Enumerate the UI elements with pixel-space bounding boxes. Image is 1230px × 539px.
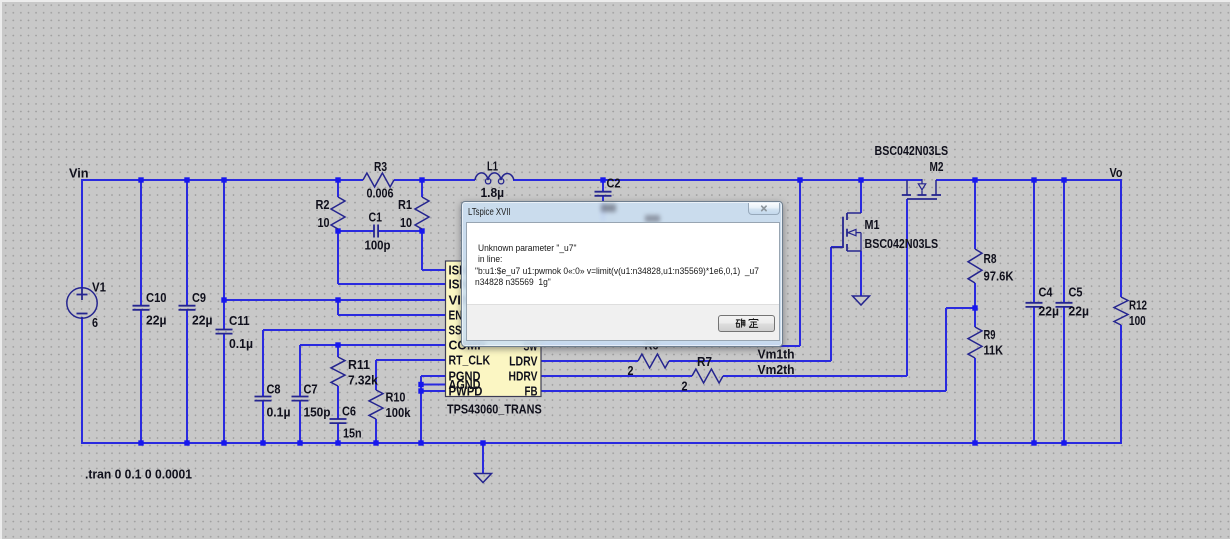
svg-text:Vm2th: Vm2th [758, 362, 795, 377]
svg-text:22µ: 22µ [1039, 303, 1060, 318]
svg-text:97.6K: 97.6K [984, 268, 1015, 283]
svg-text:LDRV: LDRV [509, 353, 538, 368]
capacitor C9 [179, 305, 196, 307]
wire R1 top lead [421, 180, 423, 197]
wire C2 bottom lead (hidden by dialog) [602, 196, 604, 221]
svg-text:BSC042N03LS: BSC042N03LS [875, 143, 949, 158]
ground below M1 [853, 296, 870, 305]
node junction R8/R9 feedback [972, 305, 977, 310]
wire FB row [540, 390, 946, 392]
svg-text:BSC042N03LS: BSC042N03LS [865, 236, 939, 251]
svg-text:R12: R12 [1129, 297, 1147, 312]
wire HDRV row with R7 to M2 gate [540, 375, 692, 377]
wire top rail M2 to Vo [936, 179, 1122, 181]
wire R2 top lead [337, 180, 339, 197]
wire bottom ground rail [81, 442, 1122, 444]
svg-text:C10: C10 [146, 290, 167, 305]
svg-text:V1: V1 [92, 280, 106, 295]
LTspice XVII error dialog [461, 201, 783, 347]
wire COMP row to C7 [300, 344, 446, 346]
svg-text:2: 2 [628, 363, 634, 378]
svg-text:22µ: 22µ [1069, 303, 1090, 318]
node junction VIN/C11 [221, 297, 226, 302]
capacitor C10 [133, 305, 150, 307]
svg-text:0.1µ: 0.1µ [267, 404, 291, 419]
wire C8 bottom [262, 401, 264, 443]
wire R2 bottom lead [337, 229, 339, 232]
svg-text:0.006: 0.006 [367, 186, 394, 201]
resistor R7 [692, 369, 723, 383]
capacitor C11 [216, 329, 233, 331]
svg-text:22µ: 22µ [146, 312, 167, 327]
svg-text:R3: R3 [374, 159, 387, 174]
capacitor C8 [255, 396, 272, 398]
svg-text:C4: C4 [1039, 285, 1054, 300]
svg-text:100k: 100k [386, 405, 412, 420]
wire Vo to R12 [1120, 180, 1122, 297]
ground center bottom [475, 474, 492, 483]
capacitor C6 [330, 418, 347, 420]
wire R10 bottom [375, 419, 377, 443]
node junction COMP/R11 [335, 342, 340, 347]
dialog title [468, 206, 511, 218]
svg-text:7.32k: 7.32k [348, 373, 379, 388]
op-amp U1 block: TPS43060_TRANS IC [446, 261, 542, 397]
wire C4 column [1033, 180, 1035, 303]
node junctions bottom rail [138, 440, 143, 445]
svg-text:R7: R7 [697, 354, 712, 369]
svg-text:C6: C6 [342, 403, 356, 418]
error message text [478, 243, 576, 254]
blurred schematic remnants under glass [601, 204, 616, 212]
svg-text:1.8µ: 1.8µ [481, 185, 505, 200]
resistor R2 [331, 197, 345, 229]
svg-text:10: 10 [318, 215, 330, 230]
wire SS row to C8 [263, 329, 446, 331]
wire PGND AGND PWPD bus [421, 375, 446, 377]
wire Vin top rail left segment [81, 179, 363, 181]
node junction VIN/EN tie [335, 297, 340, 302]
wire C5 column [1063, 180, 1065, 303]
capacitor C2 [595, 191, 612, 193]
wire VIN pin row [224, 299, 446, 301]
capacitor C1 [373, 225, 375, 238]
svg-text:R8: R8 [984, 251, 997, 266]
svg-text:PWPD: PWPD [449, 383, 483, 398]
svg-text:10: 10 [400, 215, 412, 230]
svg-text:100: 100 [1129, 313, 1146, 328]
wire M1 drain lead [860, 180, 862, 213]
svg-text:L1: L1 [487, 159, 498, 174]
wire LDRV row with R6 to M1 gate [540, 360, 638, 362]
svg-text:R1: R1 [398, 197, 412, 212]
wire C6 bottom [337, 423, 339, 443]
wire R8 top lead [974, 180, 976, 249]
wire C1 row [338, 230, 374, 232]
svg-text:R11: R11 [348, 357, 370, 372]
capacitor C4 [1026, 302, 1043, 304]
svg-text:C2: C2 [607, 176, 621, 191]
inductor L1 [475, 173, 514, 180]
resistor R3 [363, 173, 394, 187]
wire R12 bottom lead [1120, 325, 1122, 444]
wire C11/VIN column [223, 180, 225, 330]
resistor R10 [369, 390, 383, 419]
svg-text:C8: C8 [267, 382, 281, 397]
resistor R8 [968, 249, 982, 283]
wire ground stub below rail [482, 443, 484, 473]
wire ISNS+ drop [421, 231, 423, 270]
svg-text:C1: C1 [369, 210, 383, 225]
resistor R9 [968, 327, 982, 358]
svg-text:2: 2 [682, 379, 688, 394]
node junctions AGND PWPD [418, 382, 423, 387]
wire V1 top lead [81, 179, 83, 289]
wire R9 bottom lead [974, 358, 976, 443]
wire C9 column [186, 180, 188, 306]
dialog close button [748, 203, 780, 216]
wire ISNS- drop [337, 231, 339, 284]
svg-text:M2: M2 [930, 159, 944, 174]
svg-text:TPS43060_TRANS: TPS43060_TRANS [447, 401, 542, 416]
svg-text:C5: C5 [1069, 285, 1083, 300]
resistor R12 [1114, 297, 1128, 325]
svg-text:0.1µ: 0.1µ [229, 336, 253, 351]
wire EN tie to VIN [337, 300, 339, 315]
svg-text:6: 6 [92, 315, 98, 330]
wire top rail L1 to M2 [513, 179, 922, 181]
footer strip [467, 304, 779, 340]
wire M1 source to ground [860, 251, 862, 296]
resistor R11 [331, 357, 345, 386]
wire RT_CLK row to R10 [376, 359, 446, 361]
svg-text:R9: R9 [984, 327, 996, 342]
svg-text:M1: M1 [865, 217, 880, 232]
wire R8 to R9 junction [974, 283, 976, 327]
svg-text:R10: R10 [386, 389, 406, 404]
svg-text:.tran 0 0.1 0 0.0001: .tran 0 0.1 0 0.0001 [85, 467, 192, 482]
capacitor C5 [1056, 302, 1073, 304]
transistor M2 [906, 180, 908, 195]
resistor R6 [638, 354, 669, 368]
transistor M1 [846, 213, 848, 220]
svg-text:100p: 100p [365, 238, 391, 253]
node junctions C1 row [335, 228, 340, 233]
svg-text:RT_CLK: RT_CLK [449, 352, 491, 367]
wire V1 bottom lead [81, 317, 83, 444]
svg-text:C11: C11 [229, 313, 250, 328]
wire C2 top lead [602, 180, 604, 192]
wire C7 bottom [299, 401, 301, 443]
wire R11 top lead [337, 345, 339, 357]
wire R11 to C6 [337, 386, 339, 419]
svg-text:Vm1th: Vm1th [758, 347, 795, 362]
svg-text:Vo: Vo [1110, 165, 1123, 180]
capacitor C7 [292, 396, 309, 398]
resistor R1 [415, 197, 429, 229]
svg-text:C9: C9 [192, 290, 206, 305]
wire top rail R3 to L1 [394, 179, 475, 181]
node junctions top rail [138, 177, 143, 182]
wire C10 column [140, 180, 142, 306]
svg-text:HDRV: HDRV [509, 368, 538, 383]
svg-text:C7: C7 [304, 382, 318, 397]
svg-text:11K: 11K [984, 343, 1004, 358]
voltage source V1 [67, 288, 97, 318]
wire R1 bottom lead [421, 229, 423, 232]
svg-text:SS: SS [449, 322, 462, 337]
dialog client area [466, 222, 780, 342]
OK button 确定 [718, 315, 776, 332]
svg-text:FB: FB [525, 383, 538, 398]
svg-text:R2: R2 [316, 197, 330, 212]
svg-text:15n: 15n [343, 426, 362, 441]
wire SW net to switch node [540, 345, 800, 347]
svg-text:150p: 150p [304, 404, 331, 419]
svg-text:Vin: Vin [69, 165, 89, 180]
svg-text:22µ: 22µ [192, 312, 213, 327]
